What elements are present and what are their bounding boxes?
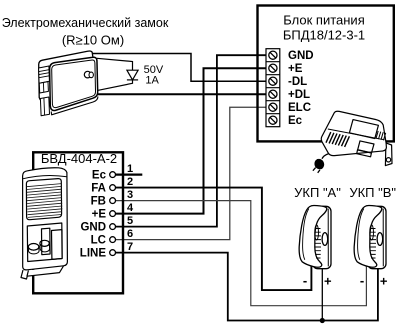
terminal circle: BVD FA <box>110 185 116 191</box>
terminal circle: BVD Ec <box>110 172 116 178</box>
wire: BVD Ec stub (pin 1, unconnected) <box>116 174 143 176</box>
svg-text:+: + <box>324 274 332 289</box>
svg-text:2: 2 <box>127 176 133 188</box>
svg-text:1A: 1A <box>145 74 159 86</box>
terminal screw: PSU +E <box>269 64 277 72</box>
terminal screw: PSU +DL <box>269 90 277 98</box>
wire: branch from bus to UKP A plus terminal <box>321 266 323 321</box>
terminal screw: PSU Ec <box>269 116 277 124</box>
wire: lock top lead to PSU -DL terminal <box>92 54 266 82</box>
svg-text:БВД-404-А-2: БВД-404-А-2 <box>41 151 117 166</box>
terminal screw: PSU GND <box>269 51 277 59</box>
wire: BVD FB (pin 3) to UKP B minus terminal <box>116 201 367 306</box>
svg-text:Ec: Ec <box>288 115 303 127</box>
svg-text:GND: GND <box>80 222 106 234</box>
svg-text:-: - <box>360 273 364 288</box>
wire: BVD FA (pin 2) to UKP A minus terminal <box>116 188 312 291</box>
svg-text:7: 7 <box>127 241 133 253</box>
svg-text:1: 1 <box>127 163 133 175</box>
svg-text:5: 5 <box>127 215 133 227</box>
svg-text:FA: FA <box>91 183 106 195</box>
svg-text:+: + <box>380 274 388 289</box>
svg-text:УКП "А": УКП "А" <box>294 185 341 200</box>
svg-text:3: 3 <box>127 189 133 201</box>
svg-text:LINE: LINE <box>80 248 107 260</box>
wire: lock bottom lead to PSU +DL terminal <box>98 93 267 95</box>
lock drawing (electromechanical lock body) <box>39 51 98 116</box>
svg-text:Электромеханический замок: Электромеханический замок <box>2 16 169 30</box>
terminal circle: BVD +E <box>110 211 116 217</box>
svg-text:+DL: +DL <box>288 89 310 101</box>
svg-text:ELC: ELC <box>288 102 311 114</box>
door station front panel drawing <box>21 168 67 279</box>
svg-text:+E: +E <box>92 209 107 221</box>
wire: PSU GND terminal to BVD GND (pin 5) <box>116 55 266 226</box>
terminal screw: PSU -DL <box>269 77 277 85</box>
intercom door station box BVD-404-A-2 <box>33 152 123 293</box>
svg-text:6: 6 <box>127 228 133 240</box>
svg-text:УКП "В": УКП "В" <box>349 185 396 200</box>
svg-text:+E: +E <box>288 63 303 75</box>
svg-text:БПД18/12-3-1: БПД18/12-3-1 <box>283 28 365 43</box>
PSU terminal strip <box>266 49 280 127</box>
terminal circle: BVD LC <box>110 237 116 243</box>
terminal circle: BVD LINE <box>110 250 116 256</box>
svg-text:(R≥10 Ом): (R≥10 Ом) <box>62 33 124 48</box>
terminal circle: BVD GND <box>110 224 116 230</box>
wire: PSU ELC terminal to BVD LC (pin 6) <box>116 107 266 239</box>
wire: BVD LINE (pin 7) to UKP B plus terminal (bottom bus) <box>116 253 378 321</box>
terminal circle: BVD FB <box>110 198 116 204</box>
handset A drawing (UKP A) <box>299 205 331 268</box>
svg-text:LC: LC <box>91 235 106 247</box>
svg-text:FB: FB <box>91 196 106 208</box>
svg-text:GND: GND <box>288 50 314 62</box>
svg-text:-: - <box>303 273 307 288</box>
wire: PSU +E terminal to BVD +E (pin 4) <box>116 68 266 213</box>
handset B drawing (UKP B) <box>354 205 386 268</box>
svg-text:-DL: -DL <box>288 76 307 88</box>
terminal screw: PSU ELC <box>269 103 277 111</box>
power supply unit box (Blok pitaniya BPD18/12-3-1) <box>258 6 394 142</box>
junction: bus node at UKP A plus drop <box>320 318 325 323</box>
diode VD1 (flyback diode across lock, 50V 1A) <box>97 58 138 90</box>
svg-text:Ec: Ec <box>92 170 107 182</box>
svg-text:4: 4 <box>127 202 134 214</box>
svg-text:Блок питания: Блок питания <box>283 12 364 27</box>
power adapter drawing (inside PSU box corner) <box>313 111 392 173</box>
